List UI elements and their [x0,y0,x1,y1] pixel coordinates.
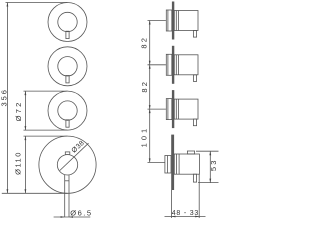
svg-text:53: 53 [209,158,218,171]
svg-text:356: 356 [0,88,9,107]
svg-text:82: 82 [140,80,149,93]
svg-text:Ø110: Ø110 [13,151,22,175]
svg-text:Ø72: Ø72 [14,100,23,121]
svg-text:48 - 33: 48 - 33 [172,210,199,217]
svg-text:82: 82 [139,36,148,49]
svg-text:Ø38: Ø38 [71,140,86,155]
svg-text:101: 101 [139,126,148,148]
svg-text:Ø6.5: Ø6.5 [70,208,92,217]
